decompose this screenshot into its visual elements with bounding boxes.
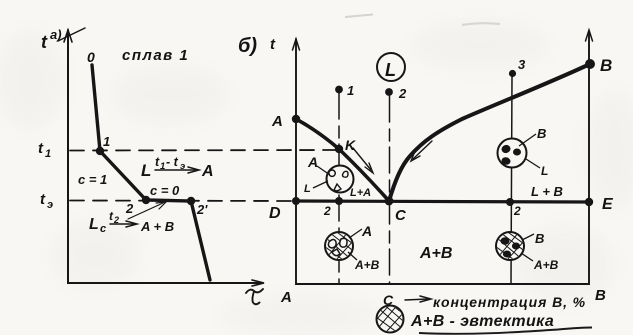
svg-text:э: э [47,199,53,211]
svg-text:L: L [385,60,396,80]
svg-text:E: E [602,196,614,213]
svg-text:t: t [41,32,48,52]
svg-text:L: L [541,164,548,178]
svg-text:A+B: A+B [354,258,380,272]
svg-text:L: L [304,183,311,195]
svg-text:L: L [141,161,151,180]
svg-text:1: 1 [45,148,51,160]
svg-text:A+B: A+B [533,258,559,272]
svg-text:1: 1 [103,134,110,149]
svg-text:K: K [345,137,356,153]
svg-text:б): б) [238,35,257,57]
svg-text:A: A [280,289,292,306]
svg-text:A: A [271,113,283,130]
svg-text:C: C [395,207,407,224]
svg-text:L: L [89,216,99,233]
svg-text:3: 3 [518,57,526,72]
svg-text:2: 2 [125,201,134,216]
svg-text:B: B [595,287,606,304]
svg-text:B: B [537,126,546,141]
svg-text:L + B: L + B [531,184,563,199]
svg-text:A: A [307,154,318,170]
svg-text:c = 1: c = 1 [78,172,107,187]
svg-text:1: 1 [347,83,354,98]
svg-text:c: c [100,223,106,235]
svg-text:э: э [180,161,185,172]
svg-text:A + B: A + B [140,219,174,234]
svg-text:A+B: A+B [419,245,452,262]
svg-text:2': 2' [196,202,208,217]
svg-text:1: 1 [160,161,165,172]
svg-text:а): а) [50,27,62,42]
svg-text:сплав 1: сплав 1 [122,47,189,64]
svg-text:C: C [383,292,394,308]
svg-text:2: 2 [513,204,521,218]
svg-text:A+В - эвтектика: A+В - эвтектика [410,313,554,330]
svg-text:c = 0: c = 0 [150,183,180,198]
svg-text:B: B [535,231,544,246]
svg-text:0: 0 [87,49,95,65]
svg-text:A: A [361,223,372,239]
svg-text:B: B [600,56,612,75]
svg-text:- t: - t [166,155,179,169]
svg-text:A: A [201,163,214,180]
svg-text:L+A: L+A [350,187,371,199]
svg-text:D: D [269,205,281,222]
svg-text:концентрация В, %: концентрация В, % [433,294,586,310]
svg-text:2: 2 [398,86,407,101]
svg-text:2: 2 [323,204,331,218]
svg-text:2: 2 [113,215,119,225]
